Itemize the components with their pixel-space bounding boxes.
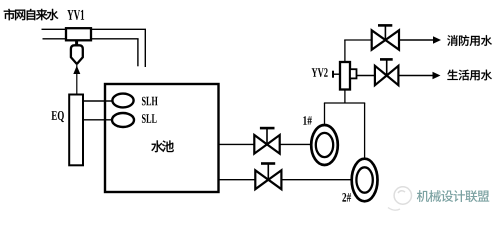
wire to valve V3: [344, 39, 372, 41]
label SLH: [142, 97, 158, 106]
valve V3 (fire water): [372, 30, 399, 49]
watermark logo flourish: [388, 208, 400, 211]
wire fire outlet: [399, 39, 434, 41]
valve V4 (domestic water): [375, 66, 399, 85]
label 2#: [342, 193, 351, 202]
wire tank to valve V1: [219, 143, 255, 145]
wire supply pipe bottom line: [43, 38, 139, 40]
wire float valve to EQ sensor: [76, 64, 78, 95]
label SLL: [142, 114, 157, 123]
valve V2 (pump 2 suction): [255, 170, 281, 189]
pump 1# outer: [311, 125, 338, 165]
solenoid valve YV2 body: [340, 62, 350, 90]
wire supply pipe inner drop: [137, 39, 139, 67]
arrow domestic water: [433, 72, 441, 79]
arrow fire water: [433, 36, 441, 43]
level switch SLH: [112, 94, 133, 108]
label YV2: [312, 68, 328, 77]
wire valve V1 to pump 1#: [280, 143, 312, 145]
level sensor EQ: [69, 95, 83, 166]
wire YV2 to valve V4: [357, 75, 376, 77]
YV2 left port bar: [332, 71, 334, 78]
label YV1: [67, 10, 84, 20]
valve V1 (pump 1 suction): [254, 135, 279, 154]
pump 2# inner: [356, 167, 372, 192]
YV2 right port: [350, 69, 357, 78]
watermark logo: [394, 187, 411, 204]
wire pump 2# riser: [364, 103, 366, 158]
YV2 left port lead: [333, 73, 340, 75]
wire pump 1# riser: [324, 103, 326, 125]
wire EQ to SLH: [83, 100, 113, 102]
arrow up to float valve: [73, 66, 80, 74]
label EQ: [51, 111, 63, 122]
pump 2# outer: [352, 159, 378, 202]
wire supply pipe top line: [42, 28, 147, 30]
label 消防用水 (fire water): [447, 35, 492, 46]
label 水池 (water tank): [151, 140, 174, 152]
water tank 水池: [105, 84, 219, 192]
wire supply pipe outer drop: [144, 29, 146, 67]
wire manifold to YV2: [344, 90, 346, 103]
label 1#: [303, 116, 312, 125]
wire EQ to SLL: [83, 119, 113, 121]
float valve body: [71, 45, 83, 63]
level switch SLL: [112, 113, 134, 127]
wire manifold: [324, 102, 365, 104]
wire YV2 to fire branch: [344, 40, 346, 62]
wire domestic outlet: [398, 75, 433, 77]
label 市网自来水 (city water supply): [4, 9, 59, 20]
wire tank to valve V2: [219, 179, 256, 181]
pump 1# inner: [316, 133, 333, 157]
wire valve V2 to pump 2#: [281, 179, 352, 181]
wire YV1 to float valve neck: [75, 40, 78, 45]
label 生活用水 (domestic water): [447, 70, 492, 81]
watermark 机械设计联盟: [417, 190, 489, 202]
solenoid valve YV1: [66, 28, 91, 40]
